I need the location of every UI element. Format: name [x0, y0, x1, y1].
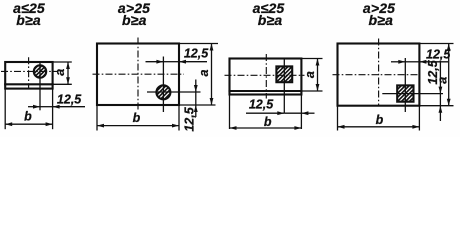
fig1 hole vertical centerline — [39, 62, 41, 110]
fig2 dimension b: dimension line with arrows — [97, 124, 179, 128]
fig1 dimension a: dimension line with arrows — [66, 62, 70, 84]
svg-text:b≥a: b≥a — [258, 12, 283, 28]
fig2 vertical axis (dash-dot) — [137, 38, 139, 111]
svg-text:12,5: 12,5 — [57, 92, 82, 106]
fig3 vertical axis (dash-dot) — [265, 54, 267, 99]
fig2 dimension 12,5 right: dimension line with outside arrows — [194, 80, 198, 118]
fig3 dimension b: dimension line with arrows — [230, 126, 302, 130]
svg-text:12,5: 12,5 — [184, 47, 209, 61]
svg-text:12,5: 12,5 — [249, 97, 274, 111]
fig3 dimension a: bottom extension line — [301, 90, 322, 92]
fig2 hole horizontal centerline — [147, 91, 201, 93]
fig1 plate outline — [5, 62, 52, 89]
fig4 dimension a: bottom extension line — [419, 105, 453, 107]
fig1 round hole (hatched) — [30, 54, 50, 90]
svg-text:a: a — [53, 69, 67, 76]
fig4 horizontal axis (dash-dot) — [333, 74, 420, 76]
svg-text:b≥a: b≥a — [122, 12, 147, 28]
svg-text:b≥a: b≥a — [368, 12, 393, 28]
fig2 dimension a: top extension line — [179, 43, 218, 45]
fig4 hole horizontal centerline — [382, 93, 443, 95]
fig4 dimension a: dimension line with arrows — [447, 44, 451, 106]
fig3 plate inner bottom line — [230, 90, 302, 92]
fig1 plate inner bottom line — [5, 83, 52, 85]
fig3 left edge extension line — [229, 95, 231, 130]
svg-text:12,5: 12,5 — [182, 106, 196, 131]
fig3 square hole (hatched) — [273, 51, 295, 97]
fig4 vertical axis (dash-dot) — [378, 39, 380, 106]
svg-text:b: b — [264, 115, 272, 129]
fig1 left edge extension line — [4, 89, 6, 130]
fig1 dimension a: top extension line — [53, 61, 72, 63]
fig3 horizontal centerline (dash-dot) — [225, 74, 305, 76]
fig3 hole vertical centerline — [283, 59, 285, 114]
svg-text:a: a — [197, 69, 211, 76]
fig4 square hole (hatched) — [394, 70, 416, 116]
fig3 right edge extension line — [300, 95, 302, 130]
fig1 right edge extension line — [52, 89, 54, 130]
fig4 dimension b: dimension line with arrows — [338, 125, 420, 129]
fig4 hole vertical centerline — [404, 58, 406, 112]
fig4 plate outline — [338, 44, 420, 106]
fig2 plate outline — [97, 44, 179, 106]
fig2 hole vertical centerline — [162, 57, 164, 113]
svg-text:b≥a: b≥a — [16, 12, 41, 28]
fig4 dimension 12,5 top: dimension line with outside arrows — [391, 60, 448, 64]
fig3 dimension 12,5: dimension line with outside arrows — [246, 111, 315, 115]
fig1 vertical axis (dash-dot) — [28, 57, 30, 88]
fig2 dimension a: dimension line with arrows — [210, 44, 214, 106]
fig2 right edge extension line — [178, 105, 180, 131]
svg-text:b: b — [133, 111, 141, 125]
fig2 horizontal axis (dash-dot) — [93, 73, 185, 75]
fig1 dimension a: bottom extension line — [53, 83, 72, 85]
fig4 right edge extension line — [418, 106, 420, 131]
fig4 dimension a: top extension line — [419, 43, 453, 45]
fig1 dimension 12,5: dimension line with outside arrows — [28, 105, 85, 109]
fig2 round hole (hatched) — [153, 74, 174, 111]
svg-text:b: b — [376, 113, 384, 127]
fig1 dimension b: dimension line with arrows — [5, 122, 52, 126]
fig2 dimension 12,5 top: dimension line with outside arrows — [146, 60, 208, 64]
fig4 left edge extension line — [337, 106, 339, 131]
fig4 dimension 12,5 right: dimension line with outside arrows — [439, 61, 443, 121]
fig3 dimension a: dimension line with arrows — [316, 59, 320, 92]
svg-text:a: a — [435, 77, 449, 84]
fig1 horizontal centerline (dash-dot) — [1, 70, 58, 72]
svg-text:a: a — [303, 71, 317, 78]
svg-text:b: b — [24, 110, 32, 124]
fig3 dimension a: top extension line — [301, 58, 322, 60]
fig2 left edge extension line — [96, 105, 98, 131]
fig3 plate outline — [230, 59, 302, 95]
fig2 dimension a: bottom extension line — [179, 104, 216, 106]
